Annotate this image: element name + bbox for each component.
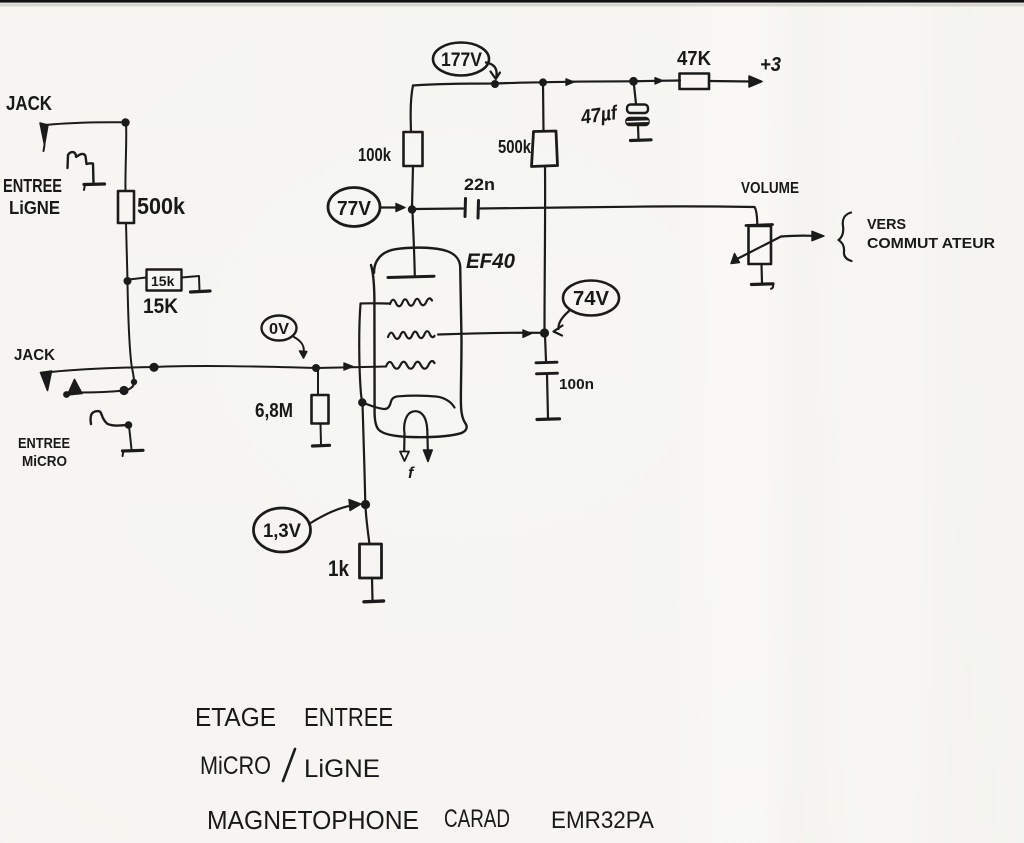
wire node B to resistor 15k bbox=[129, 278, 146, 280]
wire node A down to R500k bbox=[124, 123, 127, 192]
svg-text:EMR32PA: EMR32PA bbox=[551, 807, 654, 834]
wire switch to ground bbox=[129, 426, 132, 450]
svg-text:LiGNE: LiGNE bbox=[9, 198, 60, 218]
svg-text:ETAGE: ETAGE bbox=[195, 702, 276, 732]
wire 47uF to ground bbox=[637, 126, 640, 139]
capacitor 47uF top plate bbox=[627, 105, 648, 114]
wire screen to node S bbox=[438, 333, 540, 335]
callout 0V bbox=[262, 316, 297, 341]
wire HT rail bbox=[413, 81, 680, 86]
svg-text:COMMUT ATEUR: COMMUT ATEUR bbox=[867, 235, 995, 252]
wire node G to tube grid 1 bbox=[316, 367, 386, 369]
tube grid 3 (suppressor) squiggle bbox=[390, 298, 432, 306]
junction on input line bbox=[149, 363, 158, 372]
wire 500k down to node S bbox=[543, 167, 546, 332]
wire ring contact bbox=[80, 391, 124, 393]
wire node B down to micro jack ring bbox=[128, 283, 135, 381]
ground (1k) bbox=[364, 599, 384, 603]
tube heater bbox=[404, 411, 427, 433]
svg-text:500k: 500k bbox=[498, 137, 532, 157]
svg-text:6,8M: 6,8M bbox=[255, 400, 293, 422]
callout 77V bbox=[328, 188, 380, 227]
wire jack1 tip to node A bbox=[45, 122, 126, 125]
junction cathode node bbox=[358, 398, 366, 406]
brace vers commutateur bbox=[839, 213, 852, 262]
wire node K to 1k bbox=[366, 506, 370, 544]
wire rail to 500k screen resistor bbox=[542, 83, 545, 132]
jack J1 tip contact bbox=[40, 123, 48, 145]
tube cathode bbox=[363, 396, 455, 409]
svg-text:1,3V: 1,3V bbox=[263, 521, 301, 542]
svg-text:VERS: VERS bbox=[867, 216, 906, 233]
junction node B bbox=[124, 277, 132, 285]
svg-text:MiCRO: MiCRO bbox=[200, 752, 271, 780]
callout 1,3V bbox=[254, 508, 311, 552]
resistor 6,8M bbox=[312, 395, 329, 424]
junction rail / 500k bbox=[539, 78, 547, 86]
wire node G to 6,8M bbox=[317, 369, 319, 395]
resistor 500k (serie ligne) bbox=[118, 191, 134, 223]
ground (jack ligne switch) bbox=[84, 182, 105, 186]
ground (volume) bbox=[752, 282, 774, 286]
callout 74V bbox=[563, 281, 619, 316]
wire grid3 to cathode line bbox=[361, 302, 391, 304]
wire 22n to volume pot bbox=[480, 206, 757, 226]
wire pot to ground bbox=[760, 264, 763, 283]
resistor 15k bbox=[147, 270, 182, 291]
svg-text:+3: +3 bbox=[760, 54, 781, 76]
wire 100n to ground bbox=[547, 375, 548, 419]
svg-text:77V: 77V bbox=[337, 198, 372, 220]
junction rail / 47uF bbox=[629, 77, 638, 86]
resistor 100k bbox=[404, 132, 423, 166]
junction node A bbox=[121, 118, 129, 126]
junction plate node bbox=[408, 205, 416, 213]
wire rail to 47uF bbox=[634, 85, 636, 104]
capacitor 100n bbox=[536, 361, 557, 364]
wire rail down to 100k bbox=[411, 86, 413, 133]
junction node S (screen) bbox=[540, 328, 549, 337]
tube grid 1 (control) squiggle bbox=[386, 361, 435, 369]
svg-text:0V: 0V bbox=[269, 321, 289, 338]
resistor 47k bbox=[680, 74, 710, 90]
pot wiper arrow bbox=[735, 237, 781, 261]
svg-text:EF40: EF40 bbox=[466, 250, 515, 273]
callout 177V bbox=[433, 43, 489, 76]
wire 47k to +3 bbox=[709, 80, 751, 83]
wire 15k to ground bbox=[182, 276, 200, 291]
wire 100k to plate node bbox=[412, 166, 413, 208]
jack J2 tip contact bbox=[41, 371, 52, 391]
tube grid 2 (screen) squiggle bbox=[388, 331, 435, 339]
jack J1 switch contact bbox=[68, 152, 94, 183]
svg-text:MAGNETOPHONE: MAGNETOPHONE bbox=[207, 805, 419, 835]
svg-text:LiGNE: LiGNE bbox=[304, 755, 380, 783]
resistor 500k (screen) bbox=[532, 131, 558, 167]
svg-text:1k: 1k bbox=[328, 556, 350, 581]
svg-text:JACK: JACK bbox=[6, 93, 52, 115]
ground (jack micro) bbox=[123, 449, 144, 453]
svg-text:ENTREE: ENTREE bbox=[3, 176, 62, 196]
junction rail at 177V arrow bbox=[491, 80, 499, 88]
svg-text:VOLUME: VOLUME bbox=[741, 180, 799, 197]
wire 1k to ground bbox=[371, 578, 374, 600]
jack J2 switch contact bbox=[91, 411, 127, 426]
svg-text:100k: 100k bbox=[358, 145, 392, 165]
arrow mark on rail bbox=[566, 79, 574, 86]
svg-text:22n: 22n bbox=[464, 175, 495, 194]
potentiometer VOLUME body bbox=[749, 226, 772, 264]
jack J2 ring arrow contact bbox=[68, 380, 83, 396]
svg-text:ENTREE: ENTREE bbox=[18, 435, 70, 452]
capacitor 22n bbox=[464, 199, 468, 217]
svg-text:74V: 74V bbox=[573, 288, 610, 310]
tube EF40 envelope bbox=[371, 248, 467, 438]
capacitor 47uF bottom plate bbox=[626, 118, 649, 126]
wire 6,8M to ground bbox=[320, 424, 323, 445]
ground (15k) bbox=[191, 291, 211, 292]
svg-text:JACK: JACK bbox=[14, 347, 55, 364]
junction node G (6,8M tap) bbox=[312, 364, 320, 372]
wire plate node to 22n bbox=[415, 207, 463, 210]
tube plate (anode) bbox=[388, 276, 434, 277]
arrow mark on rail 2 bbox=[655, 78, 663, 84]
junction micro ring node bbox=[119, 386, 128, 395]
ground (6,8M) bbox=[313, 444, 330, 448]
svg-text:ENTREE: ENTREE bbox=[304, 702, 393, 732]
wire cathode down to node K bbox=[363, 404, 366, 504]
wire plate node to plate bbox=[413, 212, 415, 276]
svg-text:CARAD: CARAD bbox=[444, 805, 510, 833]
ground (47uF) bbox=[631, 138, 652, 142]
resistor 1k bbox=[360, 544, 382, 578]
wire grid input line (jack tip to node G) bbox=[51, 366, 316, 372]
wire node S to 100n bbox=[545, 335, 546, 361]
svg-text:100n: 100n bbox=[559, 376, 594, 393]
svg-text:177V: 177V bbox=[441, 50, 482, 71]
svg-text:47K: 47K bbox=[677, 48, 712, 70]
svg-text:15K: 15K bbox=[143, 295, 178, 318]
svg-text:500k: 500k bbox=[137, 193, 185, 219]
svg-text:15k: 15k bbox=[151, 273, 175, 289]
ground (100n) bbox=[537, 417, 560, 421]
svg-text:MiCRO: MiCRO bbox=[22, 453, 67, 470]
wire 500k to node B bbox=[126, 223, 128, 281]
junction node K bbox=[361, 500, 370, 509]
